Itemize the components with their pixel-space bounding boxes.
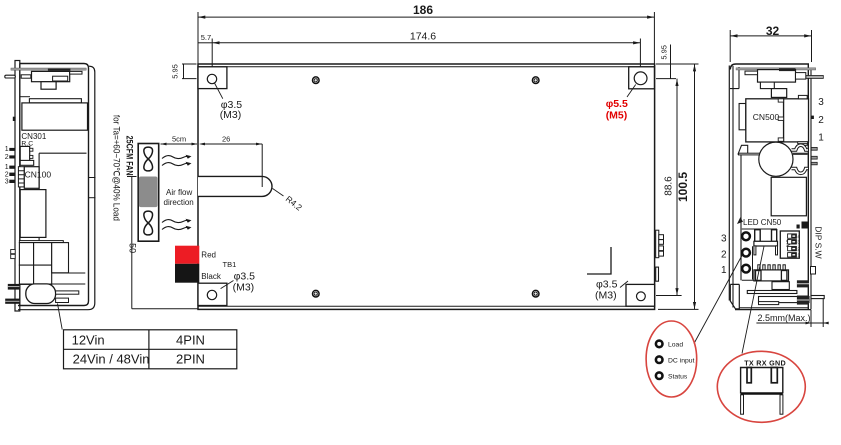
svg-text:DC input: DC input	[668, 357, 695, 364]
box below capacitor	[771, 177, 806, 216]
svg-text:3: 3	[5, 178, 9, 185]
right side view: outer left wall	[728, 66, 730, 301]
main top view: inner top line	[198, 66, 655, 68]
left view dark pin hatch upper	[8, 284, 20, 290]
wire clip lower (bump down)	[792, 169, 809, 174]
left side view: transformer box	[22, 103, 88, 130]
DIP switch 1	[788, 253, 797, 257]
svg-text:12Vin: 12Vin	[72, 332, 105, 347]
svg-text:for Ta=+60~70℃@40% Load: for Ta=+60~70℃@40% Load	[111, 115, 121, 221]
left side view: left wall	[19, 64, 21, 306]
CN500 pin bump 3	[778, 99, 783, 102]
dark pin band	[793, 153, 808, 155]
CN500 pin bump 2	[778, 117, 783, 120]
leader line capacitor to table	[58, 304, 63, 330]
connector CN301 pin a	[30, 148, 33, 151]
svg-text:φ3.5: φ3.5	[596, 278, 618, 290]
svg-text:1: 1	[5, 164, 9, 171]
R4.2 leader	[273, 189, 284, 197]
connector CN301 base	[20, 160, 34, 165]
svg-text:174.6: 174.6	[410, 30, 436, 42]
connector CN50 body	[754, 241, 778, 246]
right side view: bottom edge	[735, 308, 811, 310]
dimension 88.6	[656, 79, 682, 296]
connector CN50 legs	[754, 246, 756, 255]
airflow arrows top pair	[162, 156, 190, 166]
6-pin connector pins	[758, 265, 786, 270]
dimension 32	[730, 30, 811, 62]
svg-text:(M3): (M3)	[595, 290, 617, 302]
red wire block	[175, 246, 199, 264]
screw top 1	[313, 77, 320, 84]
support pin right	[811, 296, 824, 299]
mounting hole bottom-left	[207, 290, 216, 299]
fan hub gray block	[139, 177, 158, 208]
left view dark pin hatch lower	[5, 299, 19, 304]
screw bottom 2	[532, 290, 539, 297]
dimension 5.95 left	[182, 64, 197, 79]
dimension 5.7	[198, 42, 212, 44]
right side view: PCB gray strip	[736, 68, 816, 70]
airflow arrows bottom pair	[162, 220, 190, 230]
svg-text:5.95: 5.95	[659, 45, 668, 60]
left side view: cover joint tick upper	[89, 177, 96, 179]
svg-text:2PIN: 2PIN	[176, 352, 205, 367]
svg-text:50: 50	[127, 243, 137, 253]
svg-text:5cm: 5cm	[172, 134, 186, 143]
left side view: PCB gray strip	[11, 68, 86, 70]
protruding pin mid c	[811, 162, 817, 165]
fan blade symbol bottom	[144, 211, 153, 235]
left view component grid box C	[19, 265, 33, 284]
right view slant bracket	[738, 145, 748, 154]
svg-text:Black: Black	[201, 272, 222, 281]
right wall bump component	[811, 267, 816, 275]
fan blade symbol top	[144, 147, 153, 171]
connector CN301 pin b	[30, 155, 33, 158]
6-pin connector posts	[756, 271, 762, 281]
svg-text:1: 1	[818, 133, 824, 144]
label phi5.5 M5 red with leader	[627, 85, 636, 98]
6-pin connector body	[754, 270, 789, 281]
svg-text:1: 1	[797, 253, 800, 258]
dimension 50 vertical line	[127, 177, 198, 309]
LED callout red ellipse	[646, 321, 697, 397]
LED 3	[742, 232, 750, 240]
connector CN50 prong right	[772, 230, 777, 242]
fan box	[138, 144, 159, 242]
svg-text:Load: Load	[668, 342, 683, 349]
left side view: transformer lid	[29, 99, 81, 103]
callout LED Status	[656, 372, 663, 379]
left side view: chassis outer shell	[18, 66, 95, 310]
DIP switch 2	[788, 246, 797, 250]
label phi3.5 M3 bottom-right with leader	[620, 281, 628, 288]
svg-text:5.95: 5.95	[171, 64, 180, 79]
dimension 100.5	[656, 64, 699, 309]
svg-text:2.5mm(Max.): 2.5mm(Max.)	[758, 313, 811, 323]
left side view: terminal plate	[32, 71, 70, 81]
connector CN100 pin stack	[18, 167, 24, 187]
leader line to CN50 callout	[742, 246, 764, 353]
capacitor lead bar	[56, 291, 79, 294]
callout connector housing	[741, 368, 783, 394]
connector CN50 prong left	[755, 230, 761, 242]
left side view: cover joint tick lower	[89, 197, 96, 199]
label phi3.5 M3 top-left with leader	[215, 83, 223, 99]
mounting tab top-left	[198, 67, 227, 89]
mounting tab bottom-right	[626, 284, 655, 306]
mounting hole bottom-right	[637, 292, 646, 301]
left view shelf line 3	[19, 283, 85, 285]
CN100 pins through PCB	[9, 166, 15, 169]
right side view: terminal plate	[758, 70, 796, 83]
svg-text:24Vin / 48Vin: 24Vin / 48Vin	[73, 352, 150, 367]
svg-text:32: 32	[766, 24, 780, 38]
callout connector leg left	[741, 395, 744, 414]
left side view: terminal lower box	[41, 82, 56, 90]
mounting tab top-right	[629, 67, 655, 89]
screw bottom 1	[313, 290, 320, 297]
svg-text:3: 3	[818, 97, 824, 108]
svg-text:LED CN50: LED CN50	[743, 218, 782, 227]
protruding pin mid a	[811, 147, 817, 150]
svg-text:1: 1	[5, 146, 9, 153]
LED 1	[742, 265, 750, 273]
slot with rounded end	[198, 176, 272, 196]
svg-text:25CFM FAN: 25CFM FAN	[124, 136, 135, 176]
left view component grid box D	[34, 265, 52, 284]
connector CN100 body	[24, 167, 39, 189]
callout connector base bar	[741, 392, 783, 395]
LED compartment bottom and divider	[742, 246, 771, 280]
left compartment wall	[740, 155, 742, 280]
corner datum mark bottom-right	[587, 247, 611, 274]
callout connector pin left	[747, 368, 751, 383]
left view tall right box	[52, 243, 69, 273]
svg-text:2: 2	[797, 247, 800, 252]
DIP switch body	[780, 231, 799, 258]
right side view: inner left wall	[732, 66, 734, 308]
left side view: short ledge line	[20, 96, 30, 98]
DIP switch 4	[788, 234, 797, 238]
svg-text:1: 1	[721, 265, 727, 276]
svg-text:2: 2	[5, 154, 9, 161]
svg-text:100.5: 100.5	[676, 172, 690, 202]
left view shelf line 2	[52, 272, 86, 274]
svg-text:(M3): (M3)	[233, 282, 255, 294]
right side view: chassis top and right wall	[730, 64, 808, 310]
black wire block	[175, 264, 199, 283]
CN301 pins through PCB	[9, 148, 15, 151]
wire clip upper (bump up)	[792, 145, 809, 150]
left side view: terminal step	[53, 76, 68, 81]
left side view: small dark pin mark	[13, 117, 16, 121]
CN500 right box bottom step	[798, 142, 807, 145]
small box under capacitor	[56, 298, 69, 302]
svg-text:Status: Status	[668, 373, 688, 380]
svg-text:4: 4	[797, 234, 800, 239]
right side view: terminal left step	[745, 71, 758, 75]
right side view: right small box	[796, 73, 806, 80]
table: input pin table	[64, 330, 237, 369]
callout LED DC input	[656, 356, 663, 363]
left view component grid box A	[19, 243, 33, 266]
dimension 174.6	[212, 39, 640, 67]
LED 2	[742, 249, 750, 257]
callout LED Load	[656, 341, 663, 348]
svg-text:direction: direction	[164, 198, 194, 207]
left side view: terminal right thin bar	[70, 71, 82, 74]
svg-text:5.7: 5.7	[201, 33, 211, 42]
svg-text:2: 2	[5, 171, 9, 178]
left side view: long pin top	[5, 75, 16, 78]
CN500 right component box	[784, 99, 809, 142]
main top view: inner bottom line	[198, 305, 655, 307]
left side view: chassis inner frame	[18, 64, 89, 306]
left side view: terminal heatsink dark bar	[48, 69, 71, 71]
shelf bar	[747, 291, 797, 294]
svg-text:(M5): (M5)	[606, 110, 628, 122]
dimension 5cm	[161, 143, 198, 145]
screw top 2	[532, 77, 539, 84]
screw hatch lower	[797, 296, 809, 305]
svg-text:φ5.5: φ5.5	[606, 98, 628, 110]
CN500 pin 2 through wall	[811, 116, 814, 119]
screw hatch upper	[797, 280, 809, 287]
CN500 right box top step	[798, 95, 807, 98]
capacitor blob	[26, 284, 56, 304]
svg-text:CN100: CN100	[25, 170, 52, 180]
mounting hole top-right M5	[634, 72, 647, 85]
CN500 pin bump 1	[778, 138, 783, 141]
label LED CN50 with flag	[737, 217, 743, 224]
left view shelf	[19, 241, 63, 243]
svg-text:Red: Red	[201, 250, 216, 259]
svg-text:(M3): (M3)	[220, 109, 242, 121]
svg-text:26: 26	[222, 134, 230, 143]
svg-text:DIP S.W: DIP S.W	[813, 226, 823, 258]
right side view: heatsink dark bar	[779, 68, 796, 71]
main view right edge DIP teeth component	[656, 230, 664, 258]
right side view: terminal mid step	[760, 82, 774, 89]
dimension 26	[201, 144, 263, 187]
right view shelf under CN500	[739, 153, 773, 155]
svg-text:4PIN: 4PIN	[176, 332, 205, 347]
svg-text:3: 3	[721, 234, 727, 245]
left view small outline squares	[11, 250, 16, 254]
dimension 2.5mm(Max.)	[756, 299, 828, 327]
right side view: terminal lower box	[771, 89, 786, 98]
left view inner wall	[39, 153, 86, 241]
bracket box below connector	[772, 282, 789, 290]
svg-text:2: 2	[721, 250, 727, 261]
svg-text:2: 2	[818, 115, 824, 126]
connector CN500 left box	[739, 104, 746, 130]
small SMD dark parts	[797, 225, 800, 229]
small box bottom	[759, 302, 779, 305]
label phi3.5 M3 bottom-left with leader	[221, 281, 234, 289]
svg-text:TB1: TB1	[223, 260, 237, 269]
mounting hole top-left	[207, 74, 216, 83]
right side view: top-left notch	[730, 67, 739, 89]
bottom bracket bar	[759, 297, 810, 303]
right side view: protruding pin top	[806, 76, 823, 79]
main top view: outer body	[198, 64, 655, 309]
left view lower transformer box	[20, 190, 46, 238]
right side view: left foot bracket	[730, 284, 739, 309]
callout connector leg right	[780, 395, 783, 414]
leader line to LED callout	[694, 255, 743, 344]
dimension 5.95 right	[656, 45, 676, 79]
connector CN500 body	[746, 99, 784, 142]
right side view: outer right wall	[810, 68, 812, 310]
main view right edge connector component	[656, 267, 659, 281]
svg-text:CN500: CN500	[753, 112, 780, 122]
callout connector pin right	[771, 368, 777, 383]
svg-text:TX RX GND: TX RX GND	[744, 358, 786, 367]
svg-text:3: 3	[797, 240, 800, 245]
svg-text:88.6: 88.6	[664, 176, 675, 196]
left side view: PCB edge bar	[15, 61, 20, 312]
TX RX GND callout red ellipse	[717, 351, 805, 422]
svg-text:186: 186	[413, 3, 433, 17]
svg-text:Air flow: Air flow	[166, 188, 192, 197]
LED compartment top line	[742, 228, 777, 230]
connector CN301 body	[20, 146, 30, 164]
dimension 186	[198, 12, 654, 64]
mounting tab bottom-left	[198, 283, 227, 305]
left side view: terminal left bar	[21, 75, 31, 78]
thin bar above clip	[798, 142, 808, 144]
DIP switch 3	[788, 240, 797, 244]
capacitor circle	[759, 142, 793, 176]
svg-text:φ3.5: φ3.5	[234, 270, 256, 282]
left view component grid box B	[34, 243, 52, 266]
protruding pin mid b	[811, 156, 817, 159]
